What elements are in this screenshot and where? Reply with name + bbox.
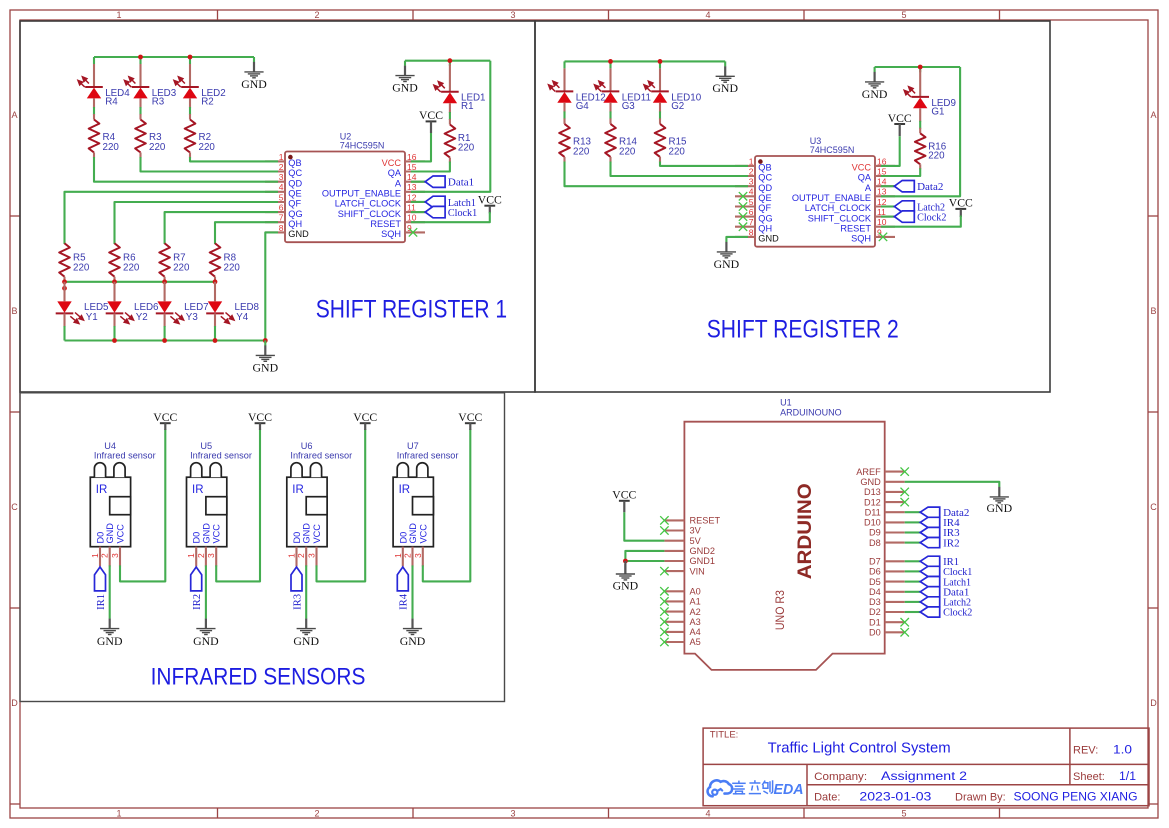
wire U5 pin 3 VCC to VCC (216, 429, 260, 581)
svg-text:3: 3 (413, 553, 423, 558)
net flag IR3 at U6 pin 1 D0 (291, 567, 302, 591)
svg-text:3: 3 (749, 177, 754, 187)
svg-text:3: 3 (279, 172, 284, 182)
no-connect X at U3 pin 9 SQH (879, 233, 887, 241)
net flag Latch1 at U1 D5 (905, 581, 921, 583)
svg-text:GND1: GND1 (690, 556, 716, 566)
U1 pin A1 stub (664, 600, 684, 602)
svg-text:A: A (11, 110, 17, 120)
net flag IR1 at U4 pin 1 D0 (95, 567, 106, 591)
svg-text:5V: 5V (690, 536, 702, 546)
wire U2 pin 8 GND to bottom rail (265, 232, 278, 340)
svg-text:Company:: Company: (814, 771, 867, 783)
svg-text:D12: D12 (864, 497, 881, 507)
wire U6 pin 2 GND to ground (305, 565, 307, 618)
svg-text:1: 1 (186, 553, 196, 558)
svg-text:RESET: RESET (690, 516, 721, 526)
wire LED9 anode drop (919, 67, 921, 72)
ground GND top of SR2 (724, 61, 726, 66)
no-connect X at U1 A0 (660, 587, 668, 595)
svg-text:QA: QA (388, 168, 402, 178)
resistor R6 220 (109, 243, 120, 276)
U3 pin 4 stub (735, 195, 755, 197)
svg-text:3: 3 (307, 553, 317, 558)
no-connect X at U1 A1 (660, 597, 668, 605)
ground GND right of U1 (987, 487, 1013, 515)
U6 pin stubs (295, 547, 297, 567)
svg-text:VCC: VCC (852, 163, 872, 173)
svg-text:VCC: VCC (888, 111, 912, 125)
svg-text:14: 14 (877, 177, 887, 187)
power flag VCC at U2 pin 10 RESET (478, 193, 502, 214)
svg-text:VCC: VCC (419, 108, 443, 122)
svg-text:QC: QC (758, 173, 772, 183)
svg-text:2: 2 (100, 553, 110, 558)
svg-text:GND: GND (253, 360, 279, 374)
svg-text:220: 220 (573, 146, 590, 157)
svg-text:GND: GND (392, 81, 418, 95)
U1 pin D5 stub (885, 581, 905, 583)
U2 pin 12 stub (405, 201, 425, 203)
wire top bus SR2 (565, 60, 726, 62)
ground GND below U5 (193, 619, 219, 648)
svg-text:GND: GND (97, 634, 123, 648)
svg-text:1: 1 (90, 553, 100, 558)
svg-text:A4: A4 (690, 627, 701, 637)
svg-text:D7: D7 (869, 557, 881, 567)
svg-text:220: 220 (928, 151, 945, 162)
svg-text:GND2: GND2 (690, 546, 716, 556)
wire LED7 cathode to bottom rail (164, 326, 166, 341)
svg-text:Drawn By:: Drawn By: (955, 792, 1006, 804)
svg-text:R1: R1 (461, 101, 474, 112)
wire top bus SR1 (LED anodes to GND) (94, 56, 254, 58)
junction R8 bottom (213, 279, 218, 284)
no-connect X at U3 pin 5 QF (739, 202, 747, 210)
svg-text:5: 5 (749, 197, 754, 207)
wire top-right bus SR2 (875, 66, 961, 68)
resistor R14 220 (609, 118, 611, 124)
U4 pin stubs (99, 547, 101, 567)
svg-text:GND: GND (288, 229, 309, 239)
wire R15 to U3 pin 1 (QB) (660, 162, 748, 166)
resistor R3 220 (139, 114, 141, 120)
svg-text:U6: U6 (301, 441, 313, 451)
no-connect X at U3 pin 4 QE (739, 192, 747, 200)
wire VCC to U2 pin 16 (411, 133, 431, 161)
resistor R7 220 (159, 243, 170, 276)
wire U2 pin 5 (QF) to R6 (115, 202, 279, 244)
svg-text:10: 10 (877, 217, 887, 227)
U1 pin GND2 stub (664, 550, 684, 552)
wire LED8 cathode to bottom rail (214, 326, 216, 341)
svg-text:4: 4 (705, 10, 710, 20)
resistor R1 220 (449, 119, 451, 125)
svg-text:D3: D3 (869, 597, 881, 607)
LED LED2 (189, 64, 191, 87)
no-connect X at U3 pin 6 QG (739, 212, 747, 220)
section box SHIFT REGISTER 2 (535, 21, 1050, 392)
wire LED3 cathode to R3 (139, 107, 141, 115)
logo JLC EDA cloud (708, 780, 733, 796)
svg-text:220: 220 (123, 263, 140, 274)
U2 pin 4 stub (265, 191, 285, 193)
svg-text:VCC: VCC (116, 524, 126, 544)
svg-text:8: 8 (279, 223, 284, 233)
svg-text:QG: QG (758, 213, 772, 223)
svg-text:QE: QE (758, 193, 771, 203)
svg-text:IR2: IR2 (191, 594, 203, 610)
net flag Data2 at U3 pin 14 (881, 185, 894, 187)
U1 pin D0 stub (885, 631, 905, 633)
svg-text:A: A (395, 178, 402, 188)
U2 pin 8 stub (265, 231, 285, 233)
svg-text:D4: D4 (869, 587, 881, 597)
net flag Clock1 at U1 D6 (905, 570, 921, 572)
net flag Data1 at U2 pin 14 (411, 181, 425, 183)
svg-text:UNO R3: UNO R3 (773, 590, 787, 630)
svg-text:A2: A2 (690, 607, 701, 617)
section box INFRARED SENSORS (20, 393, 505, 702)
svg-text:D: D (11, 698, 18, 708)
svg-text:4: 4 (705, 809, 710, 819)
wire VCC to U3 pin 16 (881, 136, 900, 166)
IC U2 74HC595N (285, 152, 405, 243)
svg-text:VCC: VCC (353, 410, 377, 424)
svg-text:D2: D2 (869, 607, 881, 617)
svg-text:QF: QF (288, 199, 301, 209)
U1 pin 3V stub (664, 529, 684, 531)
wire LED10 to resistor (659, 111, 661, 119)
U3 pin 2 stub (735, 175, 755, 177)
wire LED12 to resistor (563, 111, 565, 119)
svg-text:IR: IR (96, 484, 108, 496)
svg-text:GND: GND (987, 501, 1013, 515)
wire LED5 cathode to bottom rail (63, 326, 65, 341)
wire LED4 cathode to R4 (93, 107, 95, 115)
U2 pin 6 stub (265, 211, 285, 213)
svg-text:Infrared sensor: Infrared sensor (290, 451, 352, 461)
LED LED8 (214, 282, 216, 302)
svg-text:5: 5 (901, 10, 906, 20)
svg-text:Date:: Date: (814, 792, 840, 804)
svg-text:D0: D0 (96, 532, 106, 544)
net flag Clock2 at U1 D2 (905, 611, 921, 613)
svg-text:2: 2 (403, 553, 413, 558)
U2 pin 7 stub (265, 221, 285, 223)
net flag Clock2 at U3 pin 11 (881, 216, 894, 218)
U2 pin 14 stub (405, 181, 425, 183)
svg-text:ARDUINO: ARDUINO (794, 483, 816, 579)
svg-text:1: 1 (279, 152, 284, 162)
wire U3 pin 8 GND to ground (726, 237, 748, 242)
svg-text:QE: QE (288, 189, 301, 199)
no-connect X at U1 VIN (660, 567, 668, 575)
wire U1 GND2 to ground (625, 551, 664, 561)
svg-text:AREF: AREF (856, 467, 881, 477)
svg-text:U1: U1 (780, 398, 792, 408)
no-connect X at U1 A5 (660, 638, 668, 646)
wire R13 to U3 pin 3 (QD) (565, 162, 749, 187)
LED LED3 (139, 64, 141, 87)
svg-text:RESET: RESET (840, 223, 871, 233)
svg-text:1: 1 (393, 553, 403, 558)
ground GND top-right of SR1 (404, 61, 406, 66)
power flag VCC at U3 pin 16 (888, 111, 912, 136)
svg-text:QB: QB (288, 158, 301, 168)
IC U3 74HC595N (755, 156, 875, 247)
svg-text:2: 2 (196, 553, 206, 558)
junction at LED2 top (188, 55, 193, 60)
svg-text:IR2: IR2 (943, 538, 960, 549)
wire U6 pin 3 VCC to VCC (317, 429, 366, 581)
junction R6 bottom (112, 279, 117, 284)
wire U2 pin 4 (QE) to R5 (65, 192, 279, 244)
svg-text:Y1: Y1 (86, 312, 98, 323)
no-connect X at U1 3V (660, 526, 668, 534)
junction R7 bottom (162, 279, 167, 284)
LED LED7 (164, 282, 166, 302)
power flag VCC at U2 pin 16 (419, 108, 443, 133)
svg-text:A: A (1150, 110, 1156, 120)
wire LED1 anode drop (449, 61, 451, 66)
svg-text:IR4: IR4 (398, 593, 410, 609)
svg-text:220: 220 (73, 263, 90, 274)
U1 pin AREF stub (885, 471, 905, 473)
svg-text:Infrared sensor: Infrared sensor (397, 451, 459, 461)
U1 pin D11 stub (885, 511, 905, 513)
svg-text:D9: D9 (869, 528, 881, 538)
U3 pin 6 stub (735, 216, 755, 218)
no-connect X at U1 RESET (660, 516, 668, 524)
svg-text:U7: U7 (407, 441, 419, 451)
wire R4 to U2 pin 3 (QD) (94, 157, 278, 182)
svg-text:VCC: VCC (949, 196, 973, 210)
svg-text:SHIFT_CLOCK: SHIFT_CLOCK (808, 213, 872, 223)
U2 pin 3 stub (265, 181, 285, 183)
MCU U1 ARDUINOUNO body (684, 422, 884, 670)
svg-text:220: 220 (619, 146, 636, 157)
U2 pin 16 stub (405, 160, 425, 162)
svg-text:QH: QH (758, 223, 772, 233)
U1 pin D10 stub (885, 521, 905, 523)
svg-text:11: 11 (407, 203, 416, 213)
svg-text:IR: IR (399, 484, 411, 496)
no-connect X at U1 D13 (901, 488, 909, 496)
wire LED1 cathode to R1 (449, 112, 451, 120)
no-connect X at U1 D1 (901, 618, 909, 626)
svg-text:15: 15 (407, 162, 417, 172)
svg-text:C: C (1150, 502, 1157, 512)
svg-text:74HC595N: 74HC595N (340, 140, 385, 150)
wire top-right bus SR1 (405, 60, 490, 62)
svg-text:220: 220 (199, 142, 216, 153)
svg-text:OUTPUT_ENABLE: OUTPUT_ENABLE (792, 193, 871, 203)
svg-text:Y2: Y2 (136, 312, 148, 323)
wire U4 pin 2 GND to ground (109, 565, 111, 618)
U1 pin VIN stub (664, 570, 684, 572)
svg-text:3: 3 (206, 553, 216, 558)
svg-text:2: 2 (296, 553, 306, 558)
svg-text:G3: G3 (622, 101, 636, 112)
svg-text:7: 7 (749, 217, 754, 227)
svg-text:5: 5 (279, 192, 284, 202)
ground GND below U3 (714, 242, 740, 271)
U1 pin 5V stub (664, 540, 684, 542)
svg-text:1.0: 1.0 (1113, 744, 1132, 756)
svg-text:R4: R4 (105, 96, 118, 107)
U3 pin 9 stub (875, 236, 895, 238)
svg-text:A: A (865, 183, 872, 193)
wire U5 pin 2 GND to ground (205, 565, 207, 618)
U2 pin 2 stub (265, 170, 285, 172)
svg-text:VIN: VIN (690, 566, 705, 576)
U1 pin D8 stub (885, 542, 905, 544)
power flag VCC at U3 pin 10 RESET (949, 196, 973, 217)
wire U1 GND1 to ground (625, 560, 664, 562)
svg-text:B: B (11, 306, 17, 316)
U1 pin RESET stub (664, 519, 684, 521)
svg-text:Traffic Light Control System: Traffic Light Control System (768, 741, 951, 757)
net flag IR4 at U1 D10 (905, 521, 921, 523)
no-connect X at U1 AREF (901, 467, 909, 475)
svg-text:D10: D10 (864, 518, 881, 528)
U2 pin 1 stub (265, 160, 285, 162)
svg-text:VCC: VCC (478, 193, 502, 207)
svg-text:SHIFT REGISTER 1: SHIFT REGISTER 1 (316, 295, 507, 323)
U3 pin 5 stub (735, 205, 755, 207)
ground GND below U4 (97, 619, 123, 648)
junction LED7 bottom (162, 338, 167, 343)
LED LED4 (93, 64, 95, 87)
svg-text:220: 220 (103, 142, 120, 153)
svg-text:1/1: 1/1 (1119, 771, 1136, 783)
svg-text:U4: U4 (104, 441, 116, 451)
svg-text:IR: IR (192, 484, 204, 496)
svg-text:QF: QF (758, 203, 771, 213)
LED LED6 (113, 282, 115, 302)
svg-text:VCC: VCC (212, 524, 222, 544)
U3 pin 11 stub (875, 216, 895, 218)
resistor R4 220 (93, 114, 95, 120)
svg-text:13: 13 (407, 182, 417, 192)
svg-text:Assignment 2: Assignment 2 (881, 771, 967, 783)
U3 pin 16 stub (875, 165, 895, 167)
svg-text:QB: QB (758, 163, 771, 173)
power flag VCC above U4 (153, 410, 177, 430)
svg-text:IR3: IR3 (291, 593, 303, 609)
svg-text:A1: A1 (690, 597, 701, 607)
svg-text:VCC: VCC (312, 524, 322, 544)
U1 pin A0 stub (664, 590, 684, 592)
wire rail joining R5-R8 bottoms (65, 281, 216, 283)
svg-text:D13: D13 (864, 487, 881, 497)
svg-text:220: 220 (669, 146, 686, 157)
svg-text:VCC: VCC (248, 410, 272, 424)
svg-text:VCC: VCC (418, 524, 428, 544)
svg-text:EDA: EDA (774, 782, 804, 798)
wire U2 pin 10 RESET to VCC (411, 212, 490, 222)
svg-text:220: 220 (173, 263, 190, 274)
junction LED6 bottom (112, 338, 117, 343)
no-connect X at U1 D12 (901, 498, 909, 506)
svg-text:R2: R2 (201, 96, 214, 107)
wire U1 GND to ground (905, 482, 1000, 487)
wire R14 to U3 pin 2 (QC) (611, 162, 749, 177)
svg-text:GND: GND (758, 234, 779, 244)
svg-text:Clock2: Clock2 (917, 212, 946, 224)
svg-text:3: 3 (110, 553, 120, 558)
U1 pin D1 stub (885, 621, 905, 623)
ground GND top-right of SR2 (874, 67, 876, 72)
svg-text:LATCH_CLOCK: LATCH_CLOCK (335, 199, 402, 209)
U1 pin D9 stub (885, 531, 905, 533)
svg-text:D1: D1 (869, 617, 881, 627)
svg-text:QD: QD (288, 178, 302, 188)
svg-text:5: 5 (901, 809, 906, 819)
svg-text:SHIFT_CLOCK: SHIFT_CLOCK (338, 209, 402, 219)
junction at LED9 top (918, 65, 923, 70)
wire U3 pin 10 RESET to VCC (881, 216, 961, 227)
svg-text:GND: GND (712, 81, 738, 95)
U3 pin 7 stub (735, 226, 755, 228)
svg-text:2: 2 (314, 10, 319, 20)
svg-text:GND: GND (241, 77, 267, 91)
LED LED9 (919, 70, 921, 97)
wire LED6 cathode to bottom rail (113, 326, 115, 341)
svg-text:15: 15 (877, 166, 887, 176)
svg-text:3: 3 (510, 809, 515, 819)
svg-text:GND: GND (201, 523, 211, 544)
U2 pin 10 stub (405, 221, 425, 223)
U1 pin D13 stub (885, 491, 905, 493)
net flag Latch2 at U1 D3 (905, 601, 921, 603)
svg-text:14: 14 (407, 172, 417, 182)
svg-text:4: 4 (749, 187, 754, 197)
U3 pin 13 stub (875, 195, 895, 197)
title block (703, 728, 1149, 806)
U2 pin 13 stub (405, 191, 425, 193)
svg-text:QH: QH (288, 219, 302, 229)
net flag IR2 at U5 pin 1 D0 (191, 567, 202, 591)
LED LED5 (63, 282, 65, 302)
wire U3 pin 13 OUTPUT_ENABLE to top bus (881, 67, 960, 196)
wire R2 to U2 pin 1 (QB) (190, 157, 278, 161)
U5 pin stubs (195, 547, 197, 567)
U3 pin 14 stub (875, 185, 895, 187)
power flag VCC above U7 (458, 410, 482, 430)
svg-text:A5: A5 (690, 637, 701, 647)
power flag VCC above U6 (353, 410, 377, 430)
svg-text:Clock2: Clock2 (943, 608, 972, 619)
svg-text:7: 7 (279, 213, 284, 223)
svg-text:IR1: IR1 (95, 594, 107, 610)
svg-text:GND: GND (860, 477, 881, 487)
svg-text:GND: GND (302, 523, 312, 544)
svg-text:R3: R3 (152, 96, 165, 107)
U2 pin 15 stub (405, 170, 425, 172)
svg-text:74HC595N: 74HC595N (810, 145, 855, 155)
U2 pin 11 stub (405, 211, 425, 213)
svg-text:Clock1: Clock1 (448, 207, 477, 219)
resistor R15 220 (659, 118, 661, 124)
net flag IR1 at U1 D7 (905, 560, 921, 562)
U1 pin D3 stub (885, 601, 905, 603)
junction at LED1 top (448, 58, 453, 63)
svg-text:TITLE:: TITLE: (710, 729, 739, 740)
no-connect X at U1 D0 (901, 628, 909, 636)
svg-text:Data1: Data1 (448, 177, 474, 189)
